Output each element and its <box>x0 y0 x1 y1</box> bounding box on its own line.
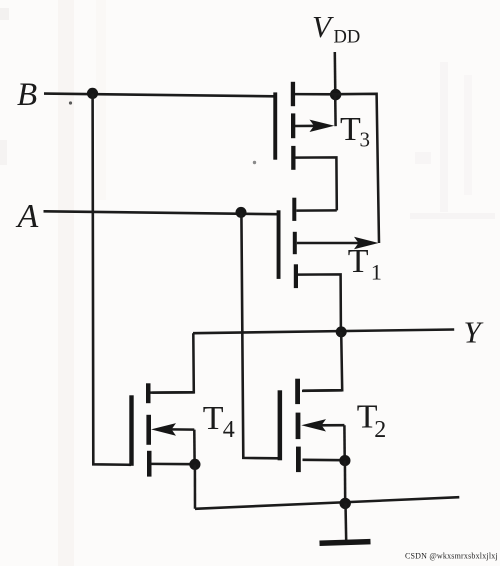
output label Y <box>464 315 484 350</box>
wire ground stub <box>344 503 347 541</box>
wire Y to T4 drain <box>152 333 194 392</box>
label T4 <box>203 400 235 443</box>
svg-text:DD: DD <box>334 27 361 47</box>
svg-text:T: T <box>348 243 369 280</box>
svg-text:2: 2 <box>374 417 386 443</box>
wire A down to T2 gate <box>241 212 278 458</box>
wire B down to T4 gate <box>93 93 131 464</box>
wire T4 source to ground rail <box>194 464 197 508</box>
transistor T2 <box>278 379 345 472</box>
label T3 <box>340 111 370 151</box>
wire VDD supply <box>334 52 337 94</box>
watermark <box>405 552 498 561</box>
svg-text:B: B <box>17 77 37 113</box>
ground rail wire <box>195 497 459 509</box>
svg-text:V: V <box>312 9 334 44</box>
label T1 <box>348 243 382 285</box>
svg-text:CSDN @wkxsmrxsbxlxjlxj: CSDN @wkxsmrxsbxlxjlxj <box>405 552 498 561</box>
input label A <box>16 198 39 235</box>
junction dot VDD node <box>330 89 341 100</box>
wire A input <box>44 211 278 214</box>
wire VDD rail to T1 substrate <box>336 94 379 243</box>
ground symbol <box>320 542 371 544</box>
transistor T4 <box>129 383 195 476</box>
junction dot ground rail <box>340 498 351 509</box>
svg-text:4: 4 <box>223 417 235 443</box>
junction dot T2 source <box>339 455 350 466</box>
svg-text:1: 1 <box>371 260 382 285</box>
junction dot A node <box>236 207 247 218</box>
svg-text:T: T <box>340 111 361 148</box>
input label B <box>17 77 37 113</box>
junction dot B node <box>87 88 98 99</box>
wire T2 source to ground rail <box>344 461 347 503</box>
svg-text:Y: Y <box>464 315 484 350</box>
wire Y to T2 drain <box>303 332 342 391</box>
junction dot Y node <box>336 326 347 337</box>
svg-text:A: A <box>16 198 39 235</box>
wire B input <box>44 94 275 97</box>
wire output Y <box>193 330 454 334</box>
power label VDD <box>312 9 360 48</box>
transistor T1 <box>277 198 379 332</box>
svg-text:3: 3 <box>360 128 371 152</box>
junction dot T4 source <box>189 459 200 470</box>
transistor T3 <box>273 82 337 211</box>
label T2 <box>357 398 387 443</box>
svg-text:T: T <box>203 400 224 437</box>
